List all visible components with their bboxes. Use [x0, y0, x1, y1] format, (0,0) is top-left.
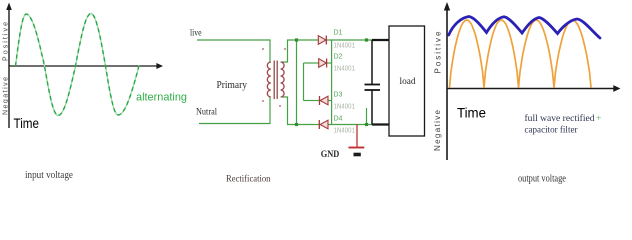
svg-text:+: + — [596, 114, 601, 124]
svg-text:output voltage: output voltage — [518, 174, 566, 185]
svg-text:Positive: Positive — [434, 31, 443, 74]
svg-text:Positive: Positive — [2, 22, 9, 61]
svg-text:capacitor filter: capacitor filter — [525, 125, 579, 136]
svg-text:Primary: Primary — [217, 80, 248, 91]
svg-text:alternating: alternating — [136, 92, 187, 104]
svg-text:Nutral: Nutral — [196, 107, 217, 117]
svg-text:Time: Time — [14, 116, 40, 131]
svg-text:input voltage: input voltage — [25, 170, 74, 181]
svg-text:live: live — [190, 28, 202, 38]
svg-text:D4: D4 — [334, 116, 343, 123]
svg-text:1N4001: 1N4001 — [334, 104, 356, 111]
svg-text:Negative: Negative — [2, 77, 9, 115]
svg-text:GND: GND — [321, 150, 340, 160]
svg-text:full wave rectified: full wave rectified — [525, 113, 595, 124]
svg-text:1N4001: 1N4001 — [334, 66, 356, 73]
svg-text:1N4001: 1N4001 — [334, 43, 356, 50]
svg-text:Negative: Negative — [433, 109, 442, 151]
svg-text:load: load — [400, 76, 417, 86]
svg-text:D2: D2 — [334, 54, 343, 61]
svg-text:Time: Time — [457, 105, 486, 121]
svg-text:1N4001: 1N4001 — [334, 128, 356, 135]
svg-text:Rectification: Rectification — [226, 174, 271, 185]
svg-text:D3: D3 — [334, 92, 343, 99]
svg-text:D1: D1 — [334, 30, 343, 37]
